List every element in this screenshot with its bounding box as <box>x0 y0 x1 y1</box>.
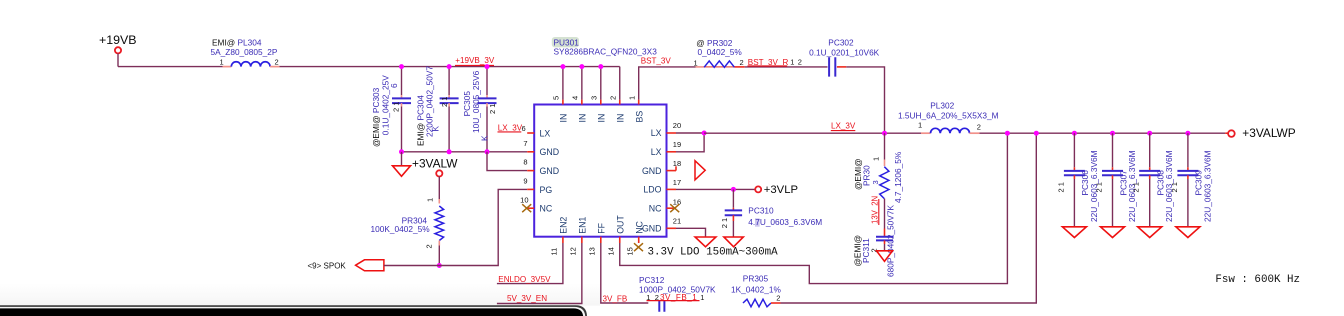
wire BS pin to BST rail <box>639 67 696 100</box>
svg-text:6: 6 <box>389 83 399 88</box>
svg-text:EN2: EN2 <box>559 217 569 234</box>
svg-text:LX: LX <box>651 147 662 157</box>
wire pin11 EN2 / ENLDO_3V5V <box>497 243 563 284</box>
svg-text:19: 19 <box>673 140 681 149</box>
wire PC306 to ground <box>1073 175 1075 179</box>
svg-text:12: 12 <box>569 247 578 255</box>
capacitor PC307 <box>1102 171 1123 175</box>
junction rail / OUT feedback <box>1005 131 1010 136</box>
wire PC310 branch <box>732 189 734 207</box>
wire pin17 LDO to +3VLP <box>676 188 755 190</box>
wire pin20 LX <box>676 132 704 134</box>
pin 7 GND stub <box>527 151 534 153</box>
wire pin8 GND branch <box>487 152 527 171</box>
pin 6 LX stub <box>527 132 534 134</box>
wire PC302 to LX_3V rail <box>846 67 884 133</box>
svg-text:OUT: OUT <box>615 215 625 234</box>
marker red triangle near pin 18 <box>695 161 705 180</box>
terminal +3VLP <box>755 186 761 192</box>
svg-text:18: 18 <box>673 159 681 168</box>
junction rail / PC307 <box>1110 131 1115 136</box>
pin 17 LDO stub <box>667 188 677 190</box>
svg-text:Fsw : 600K Hz: Fsw : 600K Hz <box>1215 274 1300 286</box>
resistor PR302 pin1 stub <box>696 66 705 68</box>
svg-text:K: K <box>480 135 490 141</box>
junction GND rail / PC303 <box>399 149 404 154</box>
pin 19 LX stub <box>667 151 677 153</box>
svg-text:4.7U_0603_6.3V6M: 4.7U_0603_6.3V6M <box>748 217 822 227</box>
IC PU301 ref designator with highlight <box>552 37 579 47</box>
wire PC308 to ground <box>1149 175 1151 179</box>
junction +19VB_3V / PC305 <box>485 64 490 69</box>
svg-text:2 1: 2 1 <box>488 104 497 114</box>
ground pin 21 <box>695 237 716 247</box>
svg-text:<9> SPOK: <9> SPOK <box>308 261 347 270</box>
junction rail / PC309 <box>1185 131 1190 136</box>
wire pin 3 drop <box>600 67 602 100</box>
svg-text:13V_2N: 13V_2N <box>871 196 880 224</box>
pin 20 LX stub <box>667 132 677 134</box>
svg-text:22U_0603_6.3V6M: 22U_0603_6.3V6M <box>1202 150 1212 222</box>
svg-text:2: 2 <box>798 58 802 67</box>
svg-text:3V_FB: 3V_FB <box>603 294 628 303</box>
svg-text:GND: GND <box>642 166 662 176</box>
inductor PL304 <box>231 62 270 67</box>
svg-text:EN1: EN1 <box>577 217 587 234</box>
svg-text:+3VALWP: +3VALWP <box>1242 126 1295 140</box>
svg-text:2: 2 <box>740 58 744 67</box>
svg-text:EMI@ PL304: EMI@ PL304 <box>212 37 262 47</box>
junction +19VB_3V / PC304 <box>447 64 452 69</box>
svg-text:PC302: PC302 <box>828 38 854 48</box>
svg-text:1.5UH_6A_20%_5X5X3_M: 1.5UH_6A_20%_5X5X3_M <box>898 110 999 120</box>
svg-text:2: 2 <box>275 57 279 66</box>
wire +19VB vertical <box>117 53 119 66</box>
svg-text:LX: LX <box>651 128 662 138</box>
pin 4 IN stub <box>581 100 583 105</box>
junction LX pins 19/20 <box>702 131 707 136</box>
svg-text:2 1: 2 1 <box>1056 182 1065 192</box>
svg-text:2 1: 2 1 <box>1132 182 1141 192</box>
capacitor PC305 <box>486 67 488 95</box>
svg-text:IN: IN <box>577 114 587 123</box>
capacitor PC310 value label <box>755 218 760 226</box>
wire PC310 to ground <box>732 215 734 221</box>
svg-text:GND: GND <box>642 224 662 234</box>
pin 11 EN2 stub <box>562 237 564 243</box>
junction rail pin4 <box>579 64 584 69</box>
wire PC311 to ground <box>884 240 886 244</box>
svg-text:10U_0805_25V6: 10U_0805_25V6 <box>471 70 481 133</box>
svg-text:IN: IN <box>559 114 569 123</box>
svg-text:FF: FF <box>596 222 606 233</box>
svg-text:2 1: 2 1 <box>392 102 401 112</box>
inductor PL302 <box>931 128 970 133</box>
wire LX_3V down to PR303 <box>884 133 886 159</box>
wire GND rail <box>402 151 528 153</box>
svg-text:5: 5 <box>552 96 561 100</box>
svg-text:LX_3V: LX_3V <box>831 122 856 131</box>
junction SPOK / PR304 <box>437 263 442 268</box>
svg-text:+19VB_3V: +19VB_3V <box>455 56 495 65</box>
capacitor PC312 <box>659 300 664 311</box>
ground PC311 <box>877 251 893 261</box>
svg-text:1: 1 <box>790 58 794 67</box>
wire pin13 FF / 3V_FB <box>601 243 649 303</box>
wire PC306 branch <box>1073 133 1075 167</box>
junction GND rail / PC305 and pin8 branch <box>485 149 490 154</box>
svg-text:20: 20 <box>673 121 681 130</box>
svg-text:6: 6 <box>522 124 526 133</box>
svg-text:7: 7 <box>523 139 527 148</box>
wire PC309 branch <box>1187 133 1189 167</box>
svg-text:3.3V LDO 150mA~300mA: 3.3V LDO 150mA~300mA <box>648 247 779 259</box>
pin 14 OUT stub <box>619 237 621 243</box>
pin 5 IN stub <box>562 100 564 105</box>
wire pin 2 drop <box>619 67 621 100</box>
svg-text:2 1: 2 1 <box>720 218 729 228</box>
wire pin12 EN1 / 5V_3V_EN <box>497 243 582 304</box>
svg-text:PC311: PC311 <box>861 238 871 263</box>
pin 15 NC stub <box>638 237 640 243</box>
capacitor PC302 right stub <box>837 66 846 68</box>
wire OUT pin14 feedback <box>620 133 1008 283</box>
resistor PR302 <box>704 66 734 68</box>
inductor PL304 pin 1 stub <box>223 66 232 68</box>
svg-text:LDO: LDO <box>643 185 661 195</box>
junction rail / PC306 <box>1072 131 1077 136</box>
svg-text:9: 9 <box>523 177 527 186</box>
svg-text:GND: GND <box>540 166 560 176</box>
ground PC307 <box>1101 227 1125 238</box>
svg-text:11: 11 <box>550 248 559 256</box>
svg-text:5A_Z80_0805_2P: 5A_Z80_0805_2P <box>211 47 278 57</box>
ground PC306 <box>1062 227 1086 238</box>
svg-text:21: 21 <box>673 217 681 226</box>
capacitor PC306 <box>1064 171 1085 175</box>
window bar bottom overlay <box>0 305 587 316</box>
svg-text:4: 4 <box>570 96 579 100</box>
svg-text:NC: NC <box>634 220 644 233</box>
wire +3VALWP rail <box>980 132 1226 134</box>
svg-text:2: 2 <box>776 294 780 303</box>
svg-text:100K_0402_5%: 100K_0402_5% <box>371 224 431 234</box>
junction rail pin3 <box>598 64 603 69</box>
svg-text:1: 1 <box>700 293 704 302</box>
pin 15 NC cross <box>634 243 643 251</box>
pin 2 IN stub <box>619 100 621 105</box>
capacitor PC308 <box>1139 171 1160 175</box>
junction LX_3V / PR303 branch <box>882 131 887 136</box>
wire BST_3V_R segment <box>745 66 828 68</box>
wire PC308 branch <box>1149 133 1151 167</box>
inductor PL302 pin2 stub <box>970 132 980 134</box>
svg-text:0.1U_0201_10V6K: 0.1U_0201_10V6K <box>809 47 880 57</box>
ground PC308 <box>1138 227 1162 238</box>
wire pin 5 drop <box>562 67 564 100</box>
svg-text:SY8286BRAC_QFN20_3X3: SY8286BRAC_QFN20_3X3 <box>554 46 658 56</box>
svg-text:PR305: PR305 <box>743 274 769 284</box>
svg-text:3: 3 <box>871 180 880 184</box>
svg-text:3: 3 <box>589 96 598 100</box>
pin 1 BS stub <box>638 100 640 105</box>
wire PR305 to rail <box>781 133 1037 303</box>
capacitor PC304 <box>448 67 450 95</box>
wire SPOK to PG <box>384 189 527 265</box>
svg-text:13: 13 <box>588 247 597 255</box>
junction rail pin5 <box>560 64 565 69</box>
pin 8 GND stub <box>527 170 534 172</box>
svg-text:PC310: PC310 <box>748 206 774 216</box>
svg-text:IN: IN <box>596 114 606 123</box>
resistor PR302 pin2 stub <box>735 66 745 68</box>
pin 9 PG stub <box>527 188 534 190</box>
capacitor PC310 <box>725 210 742 215</box>
wire PR304 pin 2 down <box>438 241 440 246</box>
svg-text:17: 17 <box>673 178 681 187</box>
capacitor PC302 <box>829 57 835 76</box>
wire pin21 GND to ground <box>676 228 706 237</box>
pin 18 GND stub <box>667 170 677 172</box>
svg-text:LX_3V: LX_3V <box>498 123 523 132</box>
pin 12 EN1 stub <box>581 237 583 243</box>
wire PC309 to ground <box>1187 175 1189 179</box>
pin 10 NC cross <box>522 204 531 212</box>
terminal +3VALWP <box>1228 130 1235 137</box>
inductor PL302 pin1 stub <box>921 132 931 134</box>
ground PC310 <box>724 237 743 247</box>
wire LX_3V rail <box>704 132 921 134</box>
svg-text:1: 1 <box>627 96 636 100</box>
svg-text:PL302: PL302 <box>930 101 954 111</box>
svg-text:0_0402_5%: 0_0402_5% <box>698 47 743 57</box>
resistor PR305 <box>743 299 771 307</box>
terminal +3VALW <box>436 170 442 176</box>
pin 16 NC stub <box>667 207 677 209</box>
svg-text:2 1: 2 1 <box>1095 182 1104 192</box>
svg-text:2: 2 <box>608 96 617 100</box>
svg-text:2: 2 <box>424 244 433 248</box>
pin 18 stub tick <box>675 166 677 170</box>
svg-text:PG: PG <box>540 185 553 195</box>
svg-text:8: 8 <box>523 158 527 167</box>
junction GND rail / PC304 <box>447 149 452 154</box>
pin 21 GND stub <box>667 227 677 229</box>
svg-text:1: 1 <box>426 198 435 202</box>
wire pin19 LX up <box>676 133 704 152</box>
svg-text:NC: NC <box>649 203 662 213</box>
pin 16 NC cross <box>670 204 679 212</box>
ground under input caps <box>393 166 411 177</box>
pin 13 FF stub <box>600 237 602 243</box>
resistor PR305 pin2 stub <box>771 302 781 304</box>
capacitor PC303 <box>401 67 403 95</box>
junction rail / PC308 <box>1147 131 1152 136</box>
wire +19VB_3V rail <box>280 66 620 68</box>
junction +19VB_3V / PC303 <box>399 64 404 69</box>
svg-text:16: 16 <box>673 197 681 206</box>
svg-text:GND: GND <box>540 147 560 157</box>
svg-text:10: 10 <box>520 195 528 204</box>
capacitor PC311 <box>876 237 893 241</box>
wire +19VB to PL304 pin1 <box>118 66 223 68</box>
svg-text:BS: BS <box>634 111 644 123</box>
svg-text:K: K <box>431 126 441 132</box>
op-amp regulator U PU301 body <box>534 105 666 237</box>
svg-text:2 1: 2 1 <box>440 97 449 107</box>
svg-text:1: 1 <box>872 157 881 161</box>
svg-text:NC: NC <box>540 204 553 214</box>
terminal +19VB <box>115 47 121 53</box>
svg-text:1: 1 <box>220 57 224 66</box>
svg-text:IN: IN <box>615 114 625 123</box>
capacitor PC309 <box>1177 171 1198 175</box>
wire +3VALW to PR304 <box>438 177 440 200</box>
svg-text:15: 15 <box>625 247 634 255</box>
svg-text:14: 14 <box>606 247 615 255</box>
pin 3 IN stub <box>600 100 602 105</box>
svg-text:1: 1 <box>918 120 922 129</box>
ground PC309 <box>1176 227 1200 238</box>
junction rail / PR305 feedback <box>1034 131 1039 136</box>
svg-text:680P_0402_50V7K: 680P_0402_50V7K <box>886 205 896 277</box>
svg-text:LX: LX <box>540 128 551 138</box>
resistor PR303 <box>880 167 889 199</box>
svg-text:1: 1 <box>694 58 698 67</box>
svg-text:1K_0402_1%: 1K_0402_1% <box>731 285 781 295</box>
svg-text:2 1: 2 1 <box>1170 182 1179 192</box>
wire PC307 branch <box>1112 133 1114 167</box>
svg-text:5V_3V_EN: 5V_3V_EN <box>507 294 547 303</box>
svg-text:+19VB: +19VB <box>99 33 137 47</box>
inductor PL304 pin 2 stub <box>270 66 279 68</box>
port SPOK arrow <box>356 260 384 271</box>
svg-text:4.7_1206_5%: 4.7_1206_5% <box>893 151 903 203</box>
svg-text:ENLDO_3V5V: ENLDO_3V5V <box>498 275 551 284</box>
wire PC307 to ground <box>1112 175 1114 179</box>
pin 10 NC stub <box>527 207 534 209</box>
resistor PR304 <box>435 206 444 241</box>
junction LDO / PC310 <box>731 187 736 192</box>
wire GND stub down <box>401 152 403 166</box>
svg-text:+3VALW: +3VALW <box>412 156 458 170</box>
wire pin 4 drop <box>581 67 583 100</box>
svg-text:BST_3V: BST_3V <box>641 56 672 65</box>
wire PR303 to PC311 <box>884 199 886 229</box>
svg-text:2: 2 <box>977 122 981 131</box>
svg-text:+3VLP: +3VLP <box>764 184 798 196</box>
